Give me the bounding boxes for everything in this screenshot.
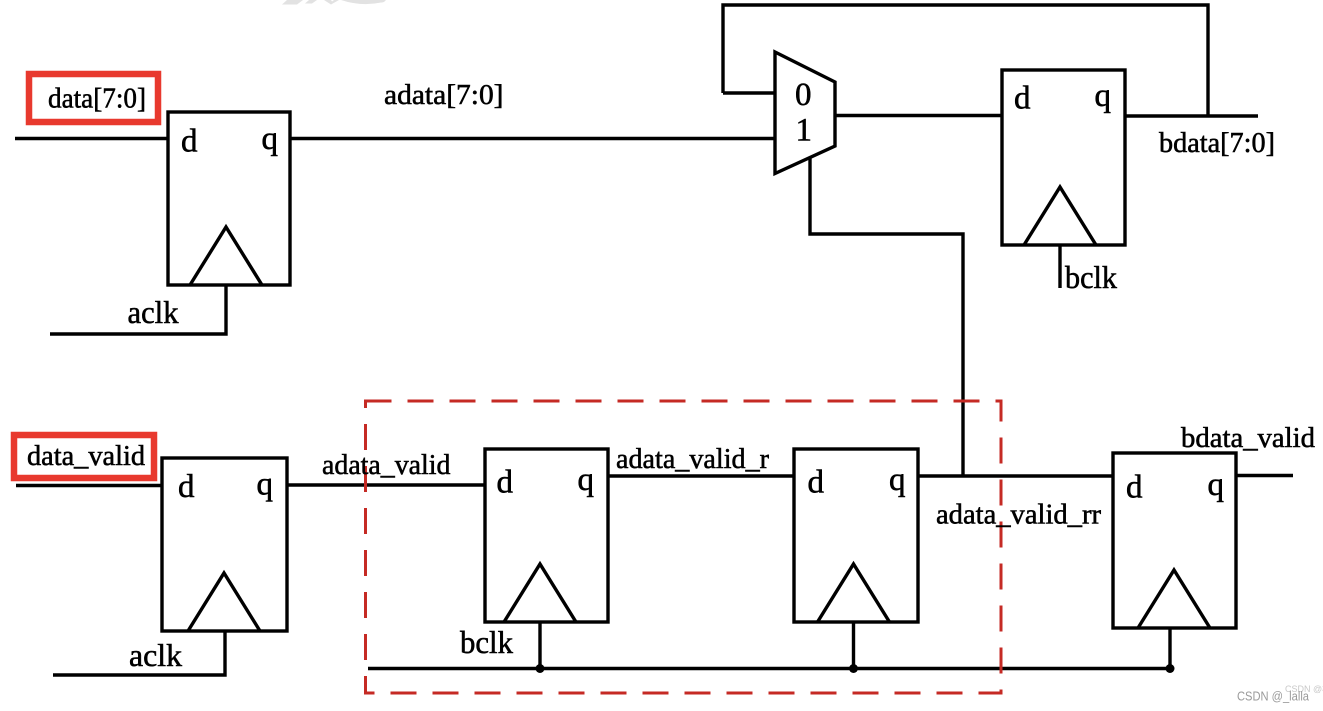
wire U5 clock stub <box>852 622 855 669</box>
svg-text:q: q <box>578 462 595 498</box>
wire data_valid input <box>16 484 162 487</box>
flip-flop U3 <box>162 458 287 631</box>
svg-text:adata_valid: adata_valid <box>322 449 451 481</box>
wire adata[7:0] U1.q to MUX1 input 1 <box>290 137 775 140</box>
svg-text:1: 1 <box>796 113 813 149</box>
wire bdata_valid U6.q output <box>1236 474 1293 477</box>
svg-text:d: d <box>1014 81 1031 117</box>
wire feedback bdata[7:0] to MUX1 input 0 <box>723 5 1208 116</box>
wire adata_valid U3.q to U4.d <box>287 483 485 486</box>
svg-text:data[7:0]: data[7:0] <box>48 83 146 115</box>
wire U4 clock stub <box>538 622 541 669</box>
svg-text:bdata[7:0]: bdata[7:0] <box>1159 127 1275 159</box>
svg-text:bdata_valid: bdata_valid <box>1181 422 1315 454</box>
svg-text:d: d <box>181 124 198 160</box>
synchronizer boundary (red dashed box) <box>366 401 1002 693</box>
wire MUX1 output to U2.d <box>835 114 1002 117</box>
svg-text:q: q <box>1208 467 1225 503</box>
svg-text:q: q <box>1095 78 1112 114</box>
svg-text:0: 0 <box>795 77 812 113</box>
wire bclk to U2 <box>1058 245 1061 288</box>
svg-text:q: q <box>889 462 906 498</box>
junction U4 clock <box>536 664 545 673</box>
svg-text:data_valid: data_valid <box>27 440 145 472</box>
wire U6 clock stub <box>1168 628 1171 669</box>
wire MUX1 input 0 stub <box>723 91 775 94</box>
wire MUX1 select from adata_valid_rr <box>810 158 963 476</box>
flip-flop U6 <box>1113 453 1236 628</box>
svg-text:d: d <box>497 465 514 501</box>
svg-text:d: d <box>178 469 195 505</box>
svg-text:d: d <box>1126 470 1143 506</box>
svg-text:CSDN @_lalla: CSDN @_lalla <box>1237 690 1309 704</box>
wire adata_valid_rr U5.q to U6.d <box>918 474 1113 477</box>
junction U6 clock <box>1166 664 1175 673</box>
svg-text:aclk: aclk <box>129 637 182 673</box>
wire aclk to U1 <box>50 285 226 334</box>
svg-text:bclk: bclk <box>1065 259 1117 295</box>
wire bclk distribution <box>368 667 1170 670</box>
flip-flop U1 <box>168 112 290 285</box>
wire aclk to U3 <box>53 631 225 675</box>
wire adata_valid_r U4.q to U5.d <box>608 474 794 477</box>
svg-text:q: q <box>262 121 279 157</box>
net label data_valid (red box) <box>14 435 154 478</box>
net label data[7:0] (red box) <box>29 74 158 122</box>
svg-text:d: d <box>808 465 825 501</box>
svg-text:adata_valid_rr: adata_valid_rr <box>936 499 1101 531</box>
flip-flop U5 <box>794 449 918 622</box>
svg-text:adata[7:0]: adata[7:0] <box>384 79 504 111</box>
svg-text:adata_valid_r: adata_valid_r <box>616 443 769 475</box>
flip-flop U4 <box>485 449 608 622</box>
flip-flop U2 <box>1002 70 1125 245</box>
svg-text:aclk: aclk <box>128 294 179 330</box>
mux MUX1 <box>775 52 835 174</box>
wire data[7:0] input <box>15 137 168 140</box>
wire bdata[7:0] U2.q output <box>1125 114 1258 117</box>
svg-text:q: q <box>257 467 274 503</box>
svg-text:bclk: bclk <box>460 624 513 660</box>
junction U5 clock <box>849 664 858 673</box>
